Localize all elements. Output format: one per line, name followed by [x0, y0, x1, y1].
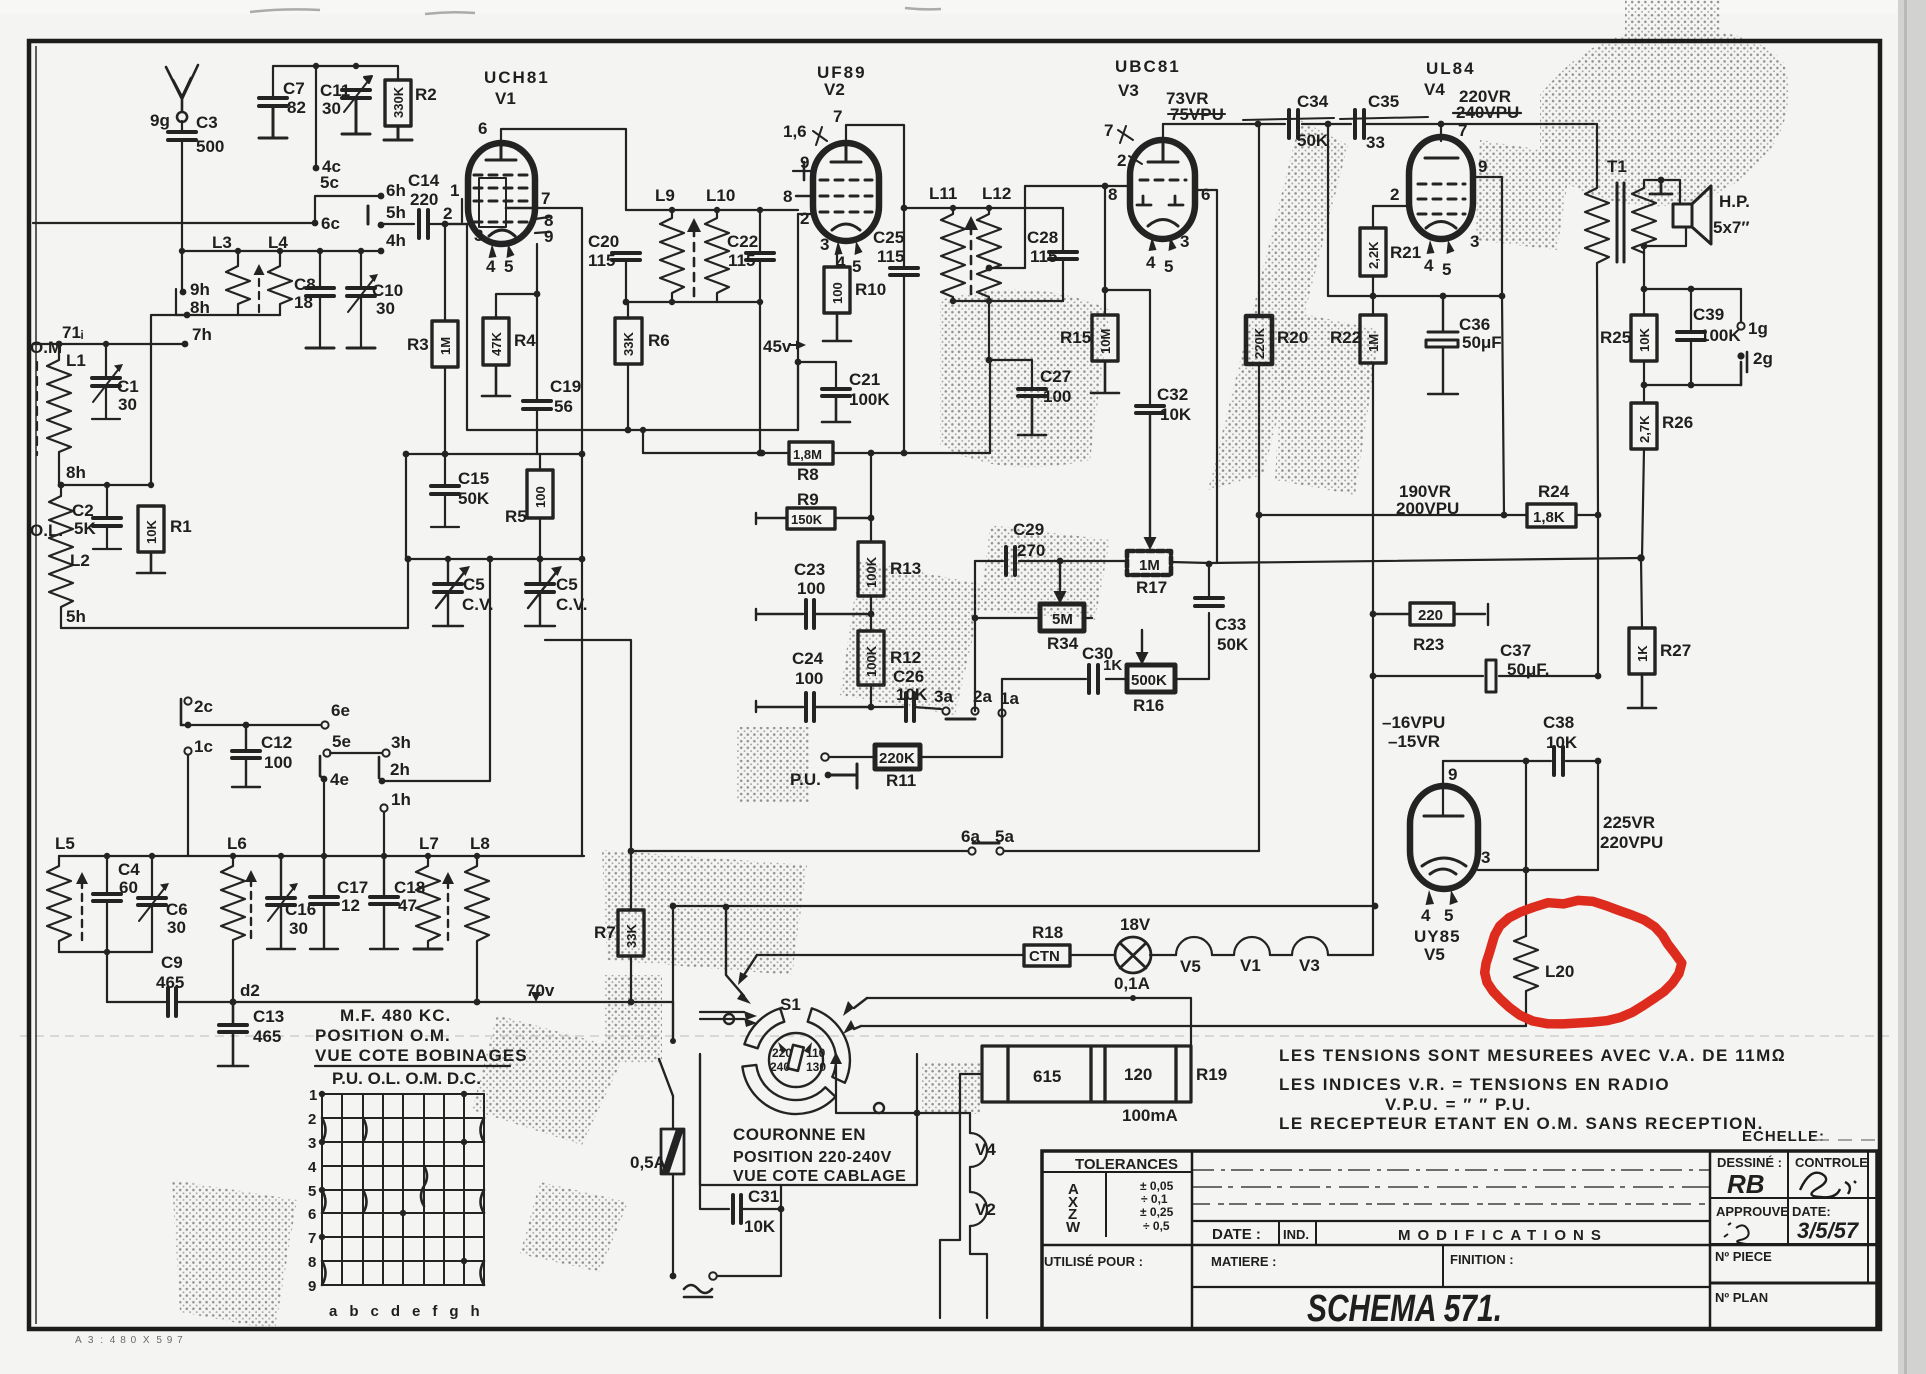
svg-text:± 0,05: ± 0,05 — [1140, 1179, 1174, 1193]
L7 bottom bar — [414, 948, 442, 951]
wire 1a column corner — [1001, 713, 1003, 757]
svg-text:R25: R25 — [1600, 328, 1631, 347]
svg-text:1,8K: 1,8K — [1533, 509, 1565, 526]
svg-text:R6: R6 — [648, 331, 670, 350]
svg-text:5: 5 — [852, 257, 861, 276]
svg-text:T1: T1 — [1607, 157, 1627, 176]
svg-text:3a: 3a — [934, 687, 953, 706]
svg-text:R9: R9 — [797, 490, 819, 509]
svg-text:R13: R13 — [890, 559, 921, 578]
svg-text:R3: R3 — [407, 335, 429, 354]
V4 pin7 stem — [1440, 124, 1442, 141]
wire R20 column top — [1258, 124, 1260, 316]
wire corner 631/640 up-left — [545, 640, 631, 851]
contact bar 5h — [367, 206, 370, 224]
resistor R12 100K — [858, 631, 884, 685]
wire C1 column + ground — [92, 344, 120, 419]
svg-text:FINITION :: FINITION : — [1450, 1252, 1514, 1267]
node 4e — [321, 776, 328, 783]
V5 pin9 stem — [1442, 761, 1444, 816]
wire R3 bottom to row454 — [444, 367, 446, 454]
svg-text:60: 60 — [119, 878, 138, 897]
dashed arrow L11/L12 — [970, 230, 973, 294]
S1 rotor pointer — [787, 1045, 803, 1071]
svg-text:50μF: 50μF — [1462, 333, 1502, 352]
node 6h — [378, 193, 385, 200]
svg-text:10K: 10K — [1637, 328, 1652, 352]
dashed line left of L1 — [36, 362, 38, 455]
svg-text:115: 115 — [1030, 247, 1057, 266]
grid coil arcs — [322, 1118, 484, 1285]
svg-text:C5: C5 — [556, 575, 578, 594]
svg-text:VUE COTE BOBINAGES: VUE COTE BOBINAGES — [315, 1046, 528, 1065]
svg-text:7: 7 — [1458, 121, 1467, 140]
svg-text:C21: C21 — [849, 370, 880, 389]
node 3h — [382, 749, 389, 756]
resistor R17 1M (bold) — [1127, 551, 1171, 575]
svg-text:1h: 1h — [391, 790, 411, 809]
wire R22 column down to heater rail — [1372, 363, 1374, 906]
svg-text:2h: 2h — [390, 760, 410, 779]
svg-text:MATIERE :: MATIERE : — [1211, 1254, 1276, 1269]
wire V1 left entry (pin2) — [445, 223, 468, 225]
svg-text:30: 30 — [376, 299, 395, 318]
svg-text:82: 82 — [287, 98, 306, 117]
svg-text:2: 2 — [443, 204, 452, 223]
svg-text:L12: L12 — [982, 184, 1011, 203]
wire R7 bottom to d2 row — [630, 956, 632, 1002]
svg-text:30: 30 — [167, 918, 186, 937]
svg-text:R5: R5 — [505, 507, 527, 526]
svg-text:DATE :: DATE : — [1212, 1226, 1261, 1243]
svg-text:R27: R27 — [1660, 641, 1691, 660]
V5 plate bar — [1424, 815, 1463, 818]
svg-text:V.P.U. = ″ ″ P: V.P.U. = ″ ″ P.U. — [1385, 1095, 1532, 1114]
svg-text:C4: C4 — [118, 860, 140, 879]
svg-text:50K: 50K — [458, 489, 490, 508]
capacitor C17 12 — [310, 897, 338, 904]
coil L8 — [465, 856, 489, 1002]
wire 1h down to row — [383, 812, 385, 856]
resistor R2 330K — [385, 80, 411, 126]
svg-text:3: 3 — [820, 235, 829, 254]
svg-text:V5: V5 — [1180, 957, 1201, 976]
svg-text:Nº PLAN: Nº PLAN — [1715, 1290, 1768, 1305]
svg-text:O.M: O.M — [30, 338, 62, 357]
svg-text:± 0,25: ± 0,25 — [1140, 1205, 1174, 1219]
wire 406 column (row454 to row559) — [405, 454, 407, 559]
svg-text:Nº PIECE: Nº PIECE — [1715, 1249, 1772, 1264]
svg-text:C1: C1 — [117, 377, 139, 396]
svg-text:100: 100 — [533, 486, 548, 508]
wire C5no1 column + ground — [433, 559, 463, 626]
svg-text:4e: 4e — [330, 770, 349, 789]
svg-text:C35: C35 — [1368, 92, 1399, 111]
L12 tap to V3 pin8 — [989, 186, 1025, 268]
junction C12 — [243, 722, 250, 729]
wire R21 bottom to row296 — [1372, 276, 1374, 296]
svg-text:12: 12 — [341, 896, 360, 915]
enclosure left wire down to C31 — [700, 1054, 729, 1209]
svg-text:R11: R11 — [886, 771, 916, 790]
heater bump V4 (vertical) — [970, 1133, 987, 1167]
svg-text:5K: 5K — [74, 519, 96, 538]
capacitor C37 50uF (electrolytic) — [1486, 660, 1496, 692]
svg-text:R7: R7 — [594, 923, 616, 942]
svg-text:V4: V4 — [1424, 80, 1445, 99]
V4 pin2 wire — [1373, 206, 1409, 228]
V3 pin1 stem to top rail — [1162, 124, 1164, 144]
wire C20 col to L9 bottom row — [625, 260, 627, 302]
mains terminal — [709, 1272, 717, 1280]
svg-text:R26: R26 — [1662, 413, 1693, 432]
row 561 R17 to C33col — [1060, 561, 1209, 563]
svg-text:P.U.: P.U. — [790, 770, 821, 789]
node 4h — [378, 248, 385, 255]
svg-text:C8: C8 — [294, 275, 316, 294]
wire L3/L4 bottoms — [238, 314, 280, 316]
node 2g — [1741, 352, 1747, 385]
svg-text:2g: 2g — [1753, 349, 1773, 368]
svg-text:W: W — [1066, 1219, 1081, 1236]
heater bump V2 (vertical) — [970, 1192, 987, 1226]
svg-text:1M: 1M — [1366, 334, 1381, 352]
wire R15 bottom bar — [1091, 361, 1119, 393]
wire secondary bottom down to R25 — [1643, 246, 1645, 289]
svg-text:C25: C25 — [873, 228, 904, 247]
resistor R11 220K (bold) — [875, 745, 920, 769]
svg-text:R12: R12 — [890, 648, 921, 667]
svg-text:C2: C2 — [72, 501, 94, 520]
wire C17 column + ground — [310, 856, 338, 949]
svg-text:1,8M: 1,8M — [793, 447, 822, 462]
V2 pin arrows 4,5 — [835, 241, 863, 255]
svg-text:10K: 10K — [744, 1217, 776, 1236]
svg-text:POSITION 220-240V: POSITION 220-240V — [733, 1149, 892, 1166]
switch bracket 9h-8h — [176, 289, 186, 315]
S1 top-right arrow from row 998 — [854, 998, 867, 1008]
ground below R2 — [384, 126, 412, 140]
S1 top contact arm from CTN corner — [744, 955, 757, 975]
svg-text:2: 2 — [1117, 151, 1126, 170]
resistor R5 100 — [527, 470, 553, 518]
S1 top-left switch arm — [726, 907, 744, 996]
svg-text:5e: 5e — [332, 732, 351, 751]
svg-text:30: 30 — [118, 395, 137, 414]
svg-text:COURONNE EN: COURONNE EN — [733, 1125, 866, 1144]
V2 grid dashes — [820, 180, 872, 212]
C37 row — [1373, 675, 1598, 677]
capacitor C28 115 — [1049, 252, 1077, 259]
row 559 extension to column 582 — [540, 558, 582, 560]
node PU in — [821, 753, 829, 761]
svg-text:4: 4 — [1421, 906, 1431, 925]
svg-text:R15: R15 — [1060, 328, 1091, 347]
V4 heater column from box edge — [917, 1113, 970, 1133]
wire R13-R12 junction — [870, 596, 872, 631]
svg-text:R24: R24 — [1538, 482, 1570, 501]
capacitor C31 10K — [733, 1195, 741, 1223]
wire 5c to 6h — [315, 196, 381, 223]
node 2c — [184, 697, 191, 704]
on/off switch blade — [659, 1002, 673, 1096]
svg-text:C26: C26 — [893, 667, 924, 686]
svg-text:500: 500 — [196, 137, 224, 156]
couronne text box — [700, 1054, 917, 1185]
wire R1 bottom + ground — [137, 552, 165, 573]
svg-text:225VR: 225VR — [1603, 813, 1655, 832]
capacitor C12 100 — [232, 751, 260, 758]
svg-text:33: 33 — [1366, 133, 1385, 152]
wire C21 ground — [822, 396, 850, 422]
svg-text:3: 3 — [474, 226, 483, 245]
tube V4 UL84 envelope — [1409, 137, 1473, 239]
contact bar 3a-2a — [946, 718, 975, 721]
bottom tank row — [59, 951, 152, 953]
ground C8 — [306, 347, 334, 350]
svg-text:R8: R8 — [797, 465, 819, 484]
node 2a — [971, 707, 978, 714]
svg-text:8: 8 — [308, 1254, 316, 1271]
mains symbol — [684, 1285, 712, 1293]
node 6a — [968, 847, 975, 854]
resistor R3 1M — [432, 321, 458, 367]
svg-text:2,2K: 2,2K — [1366, 241, 1381, 269]
wire fuse top to rail — [672, 906, 674, 1002]
node 9h — [180, 289, 187, 296]
dashed arrow L7 — [447, 884, 449, 940]
resistor R4 47K — [483, 318, 509, 365]
svg-text:C33: C33 — [1215, 615, 1246, 634]
svg-text:R18: R18 — [1032, 923, 1063, 942]
svg-text:9: 9 — [308, 1278, 316, 1295]
svg-text:L10: L10 — [706, 186, 735, 205]
V5 pin3 row — [1478, 761, 1598, 870]
coil L9 — [660, 210, 684, 302]
wire bump connect — [1270, 954, 1292, 956]
coil L2 — [49, 485, 73, 628]
svg-text:C19: C19 — [550, 377, 581, 396]
svg-text:330K: 330K — [391, 86, 406, 118]
svg-text:4: 4 — [486, 257, 496, 276]
svg-text:8: 8 — [783, 187, 792, 206]
wire R34 left lead — [975, 617, 1040, 619]
svg-text:C9: C9 — [161, 953, 183, 972]
svg-text:70v: 70v — [526, 981, 555, 1000]
svg-text:SCHEMA 571.: SCHEMA 571. — [1307, 1288, 1502, 1330]
capacitor C29 270 — [1006, 547, 1015, 575]
V4 pin9 wire — [1473, 177, 1502, 296]
capacitor C33 50K — [1195, 598, 1223, 606]
svg-text:500K: 500K — [1131, 672, 1167, 689]
svg-text:C6: C6 — [166, 900, 188, 919]
trimmer C10 30 — [347, 288, 375, 296]
svg-text:0,5A: 0,5A — [630, 1153, 666, 1172]
svg-text:C36: C36 — [1459, 315, 1490, 334]
svg-text:6: 6 — [478, 119, 487, 138]
svg-text:A 3 : 4 8 0 X 5 9 7: A 3 : 4 8 0 X 5 9 7 — [75, 1335, 185, 1346]
svg-text:C13: C13 — [253, 1007, 284, 1026]
secondary top tap bar — [1650, 180, 1672, 194]
capacitor C39 100K — [1677, 332, 1705, 340]
arrow into R16 — [1141, 630, 1143, 652]
svg-text:C3: C3 — [196, 113, 218, 132]
resistor R6 33K — [615, 318, 642, 364]
wire secondary bottom to speaker — [1644, 227, 1686, 246]
wire R25 top/bottom — [1643, 289, 1645, 403]
wire down to d2 row — [106, 952, 108, 1002]
svg-text:C15: C15 — [458, 469, 489, 488]
wire secondary top to speaker — [1644, 180, 1680, 204]
svg-text:7: 7 — [1104, 121, 1113, 140]
wire 4e down to L6 row — [323, 779, 325, 856]
svg-text:130: 130 — [806, 1060, 826, 1074]
heater bump V1 — [1234, 937, 1270, 955]
wire R4 top to pin column — [496, 294, 537, 318]
svg-text:1: 1 — [309, 1087, 317, 1104]
trimmer C1 30 — [92, 378, 120, 386]
node 1c — [184, 747, 191, 754]
wire bump connect — [1212, 954, 1234, 956]
svg-text:IND.: IND. — [1283, 1227, 1309, 1242]
wire C39 column — [1690, 289, 1692, 385]
node 6c — [312, 220, 319, 227]
wire C19 to R5 — [536, 409, 538, 454]
capacitor C20 115 — [612, 253, 640, 260]
resistor R23 220 — [1410, 603, 1454, 625]
svg-text:220K: 220K — [879, 750, 915, 767]
V1 cathode arc — [489, 230, 515, 236]
svg-text:5: 5 — [504, 257, 513, 276]
svg-text:4: 4 — [308, 1159, 317, 1176]
wire R13 column — [870, 453, 872, 542]
wire junction up to box bottom — [780, 1185, 782, 1209]
V1 pin arrows 4,5 — [489, 244, 515, 258]
svg-text:3: 3 — [1481, 848, 1490, 867]
svg-text:1K: 1K — [1635, 645, 1650, 662]
svg-text:C37: C37 — [1500, 641, 1531, 660]
wire C3 down to 9h — [181, 140, 183, 289]
node 1a — [998, 709, 1005, 716]
corner 643 to bus — [642, 430, 644, 453]
capacitor C3 500 — [168, 132, 196, 140]
wire C6 column — [151, 856, 153, 952]
wire C25 column down to row453 — [903, 275, 905, 453]
trimmer C16 30 — [267, 898, 295, 905]
svg-text:POSITION O.M.: POSITION O.M. — [315, 1026, 451, 1045]
svg-text:DATE:: DATE: — [1792, 1204, 1831, 1219]
svg-text:L3: L3 — [212, 233, 232, 252]
trimmer C5 C.V. no2 — [526, 584, 554, 592]
V2 cathode arc — [832, 224, 860, 230]
wire C26 to 3a — [914, 707, 941, 709]
junction R1 col — [148, 482, 154, 488]
coil connection grid — [322, 1094, 484, 1285]
svg-text:CONTROLE: CONTROLE — [1795, 1155, 1868, 1170]
coil L20 — [1514, 936, 1538, 1026]
node 5h — [378, 222, 385, 229]
svg-text:C29: C29 — [1013, 520, 1044, 539]
svg-text:9: 9 — [1448, 765, 1457, 784]
svg-text:9h: 9h — [190, 280, 210, 299]
wire 2c to 6e — [188, 724, 321, 726]
row PU/R11 — [829, 756, 1002, 758]
svg-text:47K: 47K — [489, 332, 504, 356]
capacitor C13 465 — [219, 1025, 247, 1032]
svg-text:50K: 50K — [1297, 131, 1329, 150]
svg-text:C.V.: C.V. — [462, 595, 494, 614]
svg-text:18: 18 — [294, 293, 313, 312]
node 7h — [182, 341, 189, 348]
ground below C11 trimmer — [342, 98, 370, 134]
svg-text:115: 115 — [588, 251, 615, 270]
coil L6 — [221, 856, 245, 1002]
node 1g — [1740, 289, 1742, 322]
wire 1a column — [1001, 679, 1003, 757]
svg-text:R1: R1 — [170, 517, 192, 536]
wire C5no2 column + ground — [525, 559, 555, 626]
svg-text:3: 3 — [1470, 232, 1479, 251]
lamp 18V 0,1A — [1115, 937, 1151, 973]
capacitor C23 100 — [806, 600, 814, 628]
svg-text:10K: 10K — [1160, 405, 1192, 424]
T1 core — [1617, 183, 1624, 262]
row C30/R16 — [1002, 678, 1127, 680]
row L5..L8 (856) — [155, 855, 584, 857]
row C29 to R17 — [975, 560, 1060, 562]
junction on row 559 — [405, 556, 412, 563]
wire R34 right lead down to C30 row — [1084, 617, 1092, 619]
svg-text:100K: 100K — [864, 556, 879, 588]
svg-text:5: 5 — [1444, 906, 1453, 925]
contact bar 6a-5a — [973, 842, 999, 845]
resistor R22 1M — [1360, 315, 1386, 363]
svg-text:465: 465 — [156, 973, 184, 992]
wire L1 bottom to 8h node — [58, 470, 60, 485]
fuse 0,5A — [661, 1129, 684, 1174]
wire C14 to V1 pin2 — [428, 223, 468, 225]
trimmer C5 C.V. no1 — [434, 584, 462, 592]
top scan smudges — [250, 8, 941, 14]
svg-text:VUE COTE CABLAGE: VUE COTE CABLAGE — [733, 1168, 906, 1185]
svg-text:2c: 2c — [194, 697, 213, 716]
capacitor C38 10K — [1554, 747, 1563, 775]
svg-text:C7: C7 — [283, 79, 305, 98]
svg-text:R4: R4 — [514, 331, 536, 350]
svg-text:100: 100 — [1043, 387, 1071, 406]
svg-text:3/5/57: 3/5/57 — [1797, 1218, 1860, 1243]
tube V3 UBC81 envelope — [1130, 140, 1195, 239]
row L9/L10 top — [626, 209, 798, 211]
svg-text:UTILISÉ POUR :: UTILISÉ POUR : — [1044, 1254, 1143, 1269]
V3 pin arrows 4,5 — [1149, 237, 1177, 251]
V1 line pin7 inside — [506, 207, 535, 210]
arrow into R17 from C32 column — [1149, 413, 1151, 537]
svg-text:R10: R10 — [855, 280, 886, 299]
wire C16 column + ground — [267, 856, 295, 949]
svg-text:R17: R17 — [1136, 578, 1167, 597]
svg-text:8h: 8h — [66, 463, 86, 482]
capacitor C30 1K — [1089, 665, 1098, 693]
resistor R7 33K — [618, 910, 644, 956]
arrow from C29 node into R34 — [1059, 561, 1061, 590]
svg-text:10K: 10K — [896, 685, 928, 704]
svg-text:LE RECEPTEUR ETANT EN O.M.: LE RECEPTEUR ETANT EN O.M. SANS RECEPTIO… — [1279, 1114, 1764, 1133]
capacitor C34 50K — [1289, 110, 1298, 138]
row296 to pin9 column — [1373, 295, 1502, 297]
coil L4 — [268, 251, 292, 315]
S1 bottom-right arrow — [836, 1065, 917, 1113]
